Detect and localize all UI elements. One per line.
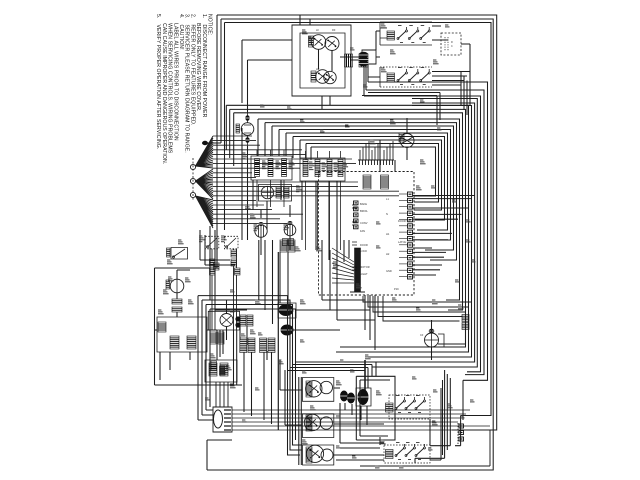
motor label <box>166 280 170 289</box>
heavy feed wire <box>364 360 366 392</box>
lamp L2 companion blobs <box>235 316 240 321</box>
small plugs mid <box>280 240 287 252</box>
door switch blocks 2 <box>231 250 237 257</box>
wire top-right links <box>340 26 470 115</box>
svg-text:LF: LF <box>316 28 319 32</box>
svg-text:DOOR: DOOR <box>360 243 368 247</box>
rear burner switch 2 <box>304 414 320 430</box>
label smudges <box>242 152 245 154</box>
wire long routes B <box>160 160 395 380</box>
wire long routes C <box>322 240 375 320</box>
board pin column upper <box>354 201 359 205</box>
electronic control board (dashed) <box>319 172 415 296</box>
connector blob B2 <box>281 325 294 336</box>
svg-text:RF: RF <box>332 28 336 32</box>
power lead terminal <box>202 141 208 145</box>
wire cascade group C <box>226 105 468 352</box>
wire cascade group B <box>364 82 488 380</box>
svg-text:BROIL: BROIL <box>360 209 368 213</box>
ground marks A <box>211 361 217 370</box>
left cluster plugs <box>170 336 179 349</box>
wire outer loop L3 <box>225 23 492 416</box>
indicator lamps pair <box>255 225 267 237</box>
wire top-right cluster bottom <box>362 93 440 126</box>
oven relay clusters K1 K2 <box>362 50 376 64</box>
wire band left verticals <box>226 105 311 166</box>
connector blob B1 box <box>278 303 296 318</box>
bottom plug P6 <box>358 389 369 405</box>
wires above comb <box>360 141 393 160</box>
door lock box <box>205 360 237 382</box>
burner plug blobs <box>340 391 348 402</box>
lamp label <box>236 124 240 133</box>
dashed box inner <box>445 37 448 51</box>
wires from terminal strip <box>413 196 475 276</box>
door switch elements <box>462 315 469 322</box>
wire bottom corners <box>207 403 461 470</box>
dashed option box <box>441 33 461 55</box>
surface burner switches SW1-SW4 <box>292 25 351 96</box>
connector P2 <box>345 54 353 67</box>
motor capacitors <box>172 299 182 304</box>
lamp L2 detail <box>222 316 231 324</box>
fan wires to mid connector <box>332 248 354 283</box>
door switch box 2 <box>224 236 238 249</box>
connector P3 <box>359 54 368 67</box>
main harness connector P1 <box>213 407 232 432</box>
wire bottom line extra <box>360 430 490 466</box>
bottom nested rect C <box>206 305 372 446</box>
door switch box 1 <box>205 236 219 249</box>
wire oven light <box>380 118 407 160</box>
mid-left relay switch <box>171 248 188 260</box>
svg-text:GND: GND <box>386 269 392 273</box>
svg-text:LOCK: LOCK <box>360 249 367 253</box>
svg-text:H1: H1 <box>386 232 390 236</box>
bottom nested rect A <box>198 296 365 455</box>
wire top cluster links <box>242 15 359 112</box>
bottom nested rect D <box>210 309 376 440</box>
convection fan motor <box>425 333 439 347</box>
dark plug bottom-left pair 1 <box>240 338 247 353</box>
lamp L2 box <box>208 311 239 330</box>
plug stacks below lamp box <box>210 332 216 344</box>
pilot lamp blobs <box>245 115 249 121</box>
control board connector comb <box>358 159 394 161</box>
svg-text:LIGHT: LIGHT <box>360 272 368 276</box>
wire outer loop L1 <box>155 15 497 430</box>
wire board bottom corners <box>363 296 472 321</box>
bottom nested rect B <box>202 300 368 450</box>
svg-text:R: R <box>451 41 453 44</box>
convection fan detail <box>425 333 438 347</box>
fan bracket <box>438 334 444 347</box>
terminal strip leads <box>399 193 407 195</box>
left cluster box <box>157 317 207 352</box>
connector blob B1 <box>279 304 294 316</box>
wire bottom horizontals <box>280 360 376 425</box>
svg-text:CONV: CONV <box>360 221 368 225</box>
left small plugs <box>240 315 246 326</box>
oven motor M1 detail <box>176 279 178 293</box>
plug blob P4 <box>363 175 371 189</box>
wire door lock to P1 <box>216 382 228 407</box>
heavy vertical wire <box>277 252 279 430</box>
wire long routes A <box>242 128 337 270</box>
bottom dashed connector <box>457 423 459 444</box>
svg-text:FAN: FAN <box>360 229 365 233</box>
svg-text:P19: P19 <box>394 287 399 291</box>
bottom relay cluster K3 <box>386 403 394 412</box>
svg-text:DOOR SW: DOOR SW <box>398 219 411 223</box>
element block row 1 <box>251 156 292 180</box>
svg-text:BAKE: BAKE <box>360 202 367 206</box>
oven light OL <box>400 134 414 148</box>
svg-text:C: C <box>451 45 453 48</box>
lamp L2 <box>220 314 233 327</box>
terminal strip TB1 <box>408 192 413 196</box>
power terminal fan connector <box>192 158 194 200</box>
pilot lamp A leads <box>244 112 251 146</box>
rear burner switch 3 <box>306 445 323 462</box>
plug blob P5 <box>381 175 389 189</box>
door switch blocks 1 <box>210 259 216 266</box>
indicator plugs <box>283 239 288 246</box>
wire outer loop L2 <box>207 19 493 470</box>
wires fan area <box>432 310 466 360</box>
wire bottom-mid verticals <box>217 330 272 424</box>
svg-text:5. VERIFY PROPER OPERATION: 5. VERIFY PROPER OPERATION AFTER SERVICI… <box>155 14 161 149</box>
wire middle horizontal bundle <box>213 136 399 223</box>
svg-text:LATCH: LATCH <box>398 240 406 244</box>
wire mid-bottom routes <box>200 226 340 360</box>
mid connector hatch <box>355 248 361 292</box>
wire indicator drops <box>261 205 290 255</box>
board left stubs <box>352 205 357 270</box>
element block row 2 <box>300 158 345 181</box>
notice text block <box>155 14 212 164</box>
oven motor M1 <box>170 279 184 293</box>
wire left col <box>155 270 227 340</box>
svg-text:N: N <box>386 212 388 216</box>
wire bottom-right frame <box>356 376 395 440</box>
bottom relay cluster K4 <box>386 450 394 459</box>
svg-text:MOTOR: MOTOR <box>360 265 370 269</box>
wire bottom-right verticals <box>441 370 463 460</box>
svg-text:H2: H2 <box>386 252 390 256</box>
svg-text:CF: CF <box>420 334 424 337</box>
wires from P1 <box>232 410 497 430</box>
wire door switch drops <box>212 249 237 330</box>
oven lamp & plug cluster <box>259 185 292 202</box>
pilot lamp A <box>241 123 254 136</box>
rear burner switch 1 <box>306 381 322 397</box>
wire bottom-center links <box>299 377 384 465</box>
oven light detail <box>401 137 413 144</box>
dark plug bottom-left pair 2 <box>260 338 267 353</box>
